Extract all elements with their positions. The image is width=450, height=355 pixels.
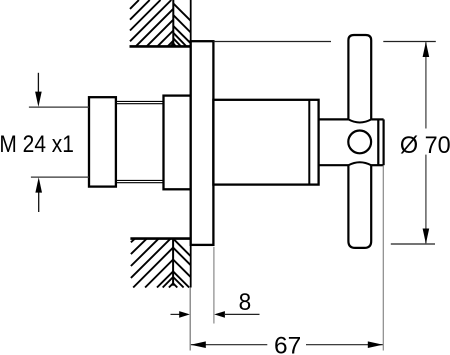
svg-text:Ø 70: Ø 70 (400, 132, 450, 159)
wall section bottom: hatching left of centerline (131, 239, 173, 288)
dimension 67: dimension line right segment (306, 344, 383, 346)
handle arm bottom junction fillet (348, 162, 371, 165)
dimension 67: right extension line (382, 166, 384, 351)
svg-text:M 24 x1: M 24 x1 (0, 131, 74, 158)
wall section bottom: right wall edge (190, 239, 192, 288)
svg-text:67: 67 (274, 333, 301, 355)
handle hub right edge (377, 119, 379, 165)
handle end cap right edge (383, 119, 385, 165)
thread M24 double lines bottom (116, 180, 164, 182)
dimension D70: top extension line segments (213, 41, 331, 43)
dimension 67: right arrow (368, 341, 383, 348)
dimension D70: dimension line (425, 42, 427, 128)
dimension 67: dimension line left segment (191, 344, 268, 346)
wall section bottom: centerline of niche (172, 239, 174, 286)
dimension 8: right extension line (213, 247, 215, 324)
dimension M24x1: upper extension line (29, 106, 89, 108)
wall section top: hatching right of centerline (173, 3, 190, 46)
dimension 8: left arrow and tail (171, 313, 180, 315)
wall section bottom: hatching right of centerline (163, 239, 191, 288)
handle hub top edge (319, 118, 384, 120)
wall section top: solid chevron at niche line tip (170, 42, 177, 47)
handle hub bottom edge (319, 164, 384, 166)
dimension M24x1: lower arrow (38, 192, 40, 212)
flange escutcheon plate (191, 41, 214, 245)
connector collar (164, 96, 191, 190)
handle arm top junction fillet (348, 119, 371, 122)
dimension 67: left arrow (191, 341, 206, 348)
wall section bottom: wall face edge (130, 237, 190, 240)
dimension 8: right arrow and tail (214, 311, 225, 318)
wall section top: hatching left of centerline (130, 0, 173, 46)
dimension D70: top arrow (423, 42, 430, 57)
wall section top: wall face edge (130, 45, 191, 48)
threaded connector nut (89, 97, 116, 186)
wall section top: centerline of niche (172, 0, 174, 46)
valve body groove line (308, 100, 310, 185)
thread M24 double lines top (116, 101, 164, 103)
dimension M24x1: lower extension line (31, 176, 89, 178)
valve body (213, 100, 318, 185)
dimension D70: bottom arrow (423, 229, 430, 244)
wall section top: right wall edge (190, 0, 192, 46)
handle arm bottom (348, 165, 371, 248)
dimension D70: bottom extension line (391, 243, 435, 245)
svg-text:8: 8 (239, 289, 252, 316)
handle spindle screw circle (348, 131, 371, 154)
dimension M24x1: upper arrow (37, 73, 39, 92)
dimension 67: left extension line (shared with dim 8) (189, 288, 191, 351)
handle arm top (348, 35, 371, 119)
dimension 8: left extension line (189, 288, 191, 351)
